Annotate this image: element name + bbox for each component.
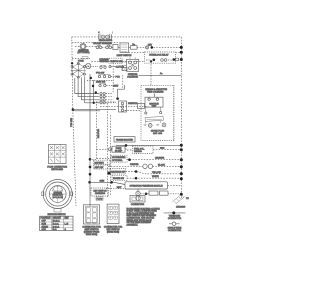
svg-text:BATTERY: BATTERY bbox=[95, 161, 105, 164]
svg-text:WHITE: WHITE bbox=[152, 176, 159, 178]
seat switch connector bbox=[82, 205, 101, 236]
node dot magneto kill bbox=[150, 60, 152, 62]
wire magneto kill vertical bbox=[150, 61, 152, 85]
svg-text:IGNITION: IGNITION bbox=[128, 103, 138, 105]
label row y162 bbox=[94, 160, 111, 164]
svg-text:PTO: PTO bbox=[116, 76, 121, 78]
ignition unit in engine bbox=[145, 94, 163, 108]
node dot bus C bbox=[180, 51, 183, 54]
node dot bus r1 bbox=[180, 144, 183, 147]
wires vertical right of switches bbox=[112, 60, 114, 92]
svg-text:RED: RED bbox=[160, 148, 165, 150]
svg-text:RUN: RUN bbox=[42, 223, 47, 225]
svg-text:KEY: KEY bbox=[148, 44, 153, 46]
single wire connector symbol bbox=[168, 222, 182, 232]
wire stub y159 bbox=[90, 158, 97, 160]
node dot interlock feed bbox=[116, 97, 119, 100]
label row y167 bbox=[94, 165, 111, 169]
key switch rotary S2 bbox=[71, 63, 86, 79]
node dot bus r2 bbox=[180, 148, 183, 151]
svg-text:BLACK: BLACK bbox=[158, 163, 165, 166]
svg-text:AMP 12V: AMP 12V bbox=[95, 166, 104, 169]
node dot bus m3 bbox=[89, 173, 92, 176]
wire row1 y145.4 bbox=[116, 144, 181, 146]
svg-text:GAP .030: GAP .030 bbox=[153, 132, 163, 135]
brake switch row y178 bbox=[112, 175, 181, 180]
node dot r1a bbox=[125, 144, 128, 147]
node dot bus end bbox=[180, 193, 183, 196]
node dot bus r6 bbox=[180, 177, 183, 180]
svg-text:REVERSE SW: REVERSE SW bbox=[111, 171, 125, 173]
interlock relay dashed box bbox=[145, 52, 176, 63]
svg-text:CLUTCH SW: CLUTCH SW bbox=[110, 61, 122, 63]
wire ground row bbox=[73, 109, 116, 110]
svg-text:GRN: GRN bbox=[100, 181, 105, 183]
wires vertical mid dashed bbox=[107, 103, 109, 198]
wire rotary to vertical bbox=[87, 80, 113, 82]
connector pins row3 bbox=[100, 99, 113, 101]
node dot r7a bbox=[110, 181, 113, 184]
svg-text:B+S+A: B+S+A bbox=[53, 225, 60, 228]
ammeter M1 bbox=[75, 43, 96, 54]
svg-text:OPERATOR PRESENCE MODULE: OPERATOR PRESENCE MODULE bbox=[130, 185, 164, 188]
wire row2 bbox=[102, 46, 181, 48]
svg-text:ORANGE: ORANGE bbox=[155, 157, 165, 160]
switch row B pto bbox=[98, 75, 120, 79]
node dot bus B bbox=[180, 46, 183, 49]
svg-text:KEY: KEY bbox=[65, 218, 70, 220]
svg-text:UNIT: UNIT bbox=[152, 106, 158, 108]
node dot w1 bbox=[90, 77, 92, 79]
key harness dashed box bbox=[91, 188, 109, 196]
wire interlock corner bbox=[118, 85, 125, 99]
fuse label box bbox=[78, 57, 88, 63]
wire line y42.7 bbox=[72, 42, 120, 44]
connector pins row2 bbox=[100, 96, 113, 98]
node dot w3 bbox=[95, 91, 97, 93]
svg-text:HEADLIGHTS: HEADLIGHTS bbox=[99, 39, 113, 42]
wire relay out bbox=[140, 193, 181, 195]
note text block bbox=[127, 208, 161, 226]
fuse F1 bbox=[106, 45, 112, 49]
svg-text:IGNITION SWITCH: IGNITION SWITCH bbox=[47, 214, 66, 216]
node dot ignition feed bbox=[151, 46, 154, 49]
wire left bus bbox=[72, 37, 76, 206]
svg-text:OPTIONAL: OPTIONAL bbox=[112, 159, 123, 162]
headlights HL1 bbox=[98, 32, 113, 42]
reverse switch row y171.5 bbox=[110, 169, 181, 175]
tick above headlights bbox=[111, 32, 113, 34]
svg-text:WIRE SIDE): WIRE SIDE) bbox=[86, 234, 98, 236]
svg-text:PLUG: PLUG bbox=[97, 198, 103, 200]
svg-text:CONNECTOR: CONNECTOR bbox=[168, 230, 182, 232]
ignition switch table bbox=[40, 214, 74, 231]
hour meter M2 bbox=[86, 63, 91, 68]
svg-text:FRAME GROUND: FRAME GROUND bbox=[116, 138, 134, 141]
svg-text:B+A: B+A bbox=[53, 228, 58, 231]
node dot relay out2 bbox=[145, 193, 148, 196]
svg-text:RED BLK: RED BLK bbox=[69, 118, 71, 128]
node dot w2 bbox=[92, 85, 94, 87]
arrow hatch ground bbox=[172, 194, 189, 208]
svg-text:CIRCUIT: CIRCUIT bbox=[53, 218, 62, 220]
svg-text:SOLENOID: SOLENOID bbox=[127, 76, 138, 78]
svg-text:YELLOW: YELLOW bbox=[152, 172, 161, 174]
node dot r5a bbox=[135, 170, 138, 173]
wire top line bbox=[72, 36, 182, 38]
switch row A clutch/brake bbox=[86, 65, 125, 68]
svg-text:A+: A+ bbox=[160, 72, 163, 75]
node dot bus m1 bbox=[89, 158, 92, 161]
svg-text:WHT: WHT bbox=[117, 187, 122, 189]
hourmeter option row y158.5 bbox=[97, 155, 182, 162]
connector pins row4 bbox=[100, 102, 116, 104]
svg-text:L+B: L+B bbox=[65, 223, 69, 225]
svg-text:CHASSIS: CHASSIS bbox=[176, 205, 186, 208]
svg-text:GROUND: GROUND bbox=[99, 61, 109, 63]
relay stacked circles bbox=[136, 189, 140, 200]
clutch label dashed box bbox=[109, 58, 122, 63]
terminal relay out box bbox=[175, 58, 178, 61]
small box pair bbox=[149, 191, 168, 195]
terminal small box bbox=[122, 68, 127, 71]
svg-text:B+A+L: B+A+L bbox=[53, 222, 60, 225]
svg-text:SEAT: SEAT bbox=[113, 84, 119, 87]
node dot bus r5 bbox=[180, 172, 183, 175]
label chassis ground bbox=[99, 58, 109, 63]
engine dashed box bbox=[141, 85, 174, 140]
node dot bus r4 bbox=[180, 165, 183, 168]
wire module feed bbox=[90, 182, 125, 184]
node dot relay a bbox=[153, 59, 156, 62]
node dot w4 bbox=[93, 102, 95, 104]
light switch S1 bbox=[117, 43, 132, 57]
terminal block bbox=[113, 45, 118, 50]
svg-text:CIRCUIT BREAKER: CIRCUIT BREAKER bbox=[93, 42, 112, 45]
svg-text:GROUND: GROUND bbox=[97, 129, 99, 139]
node dot bus relay bbox=[180, 58, 183, 61]
svg-text:START: START bbox=[42, 225, 49, 228]
svg-text:OFF: OFF bbox=[42, 221, 47, 223]
interlock wide box bbox=[125, 182, 181, 189]
node dot bus m4 bbox=[88, 181, 91, 184]
svg-text:SEAT SW: SEAT SW bbox=[96, 81, 105, 84]
svg-text:JUMPER: JUMPER bbox=[130, 164, 139, 166]
node dot left bus top bbox=[71, 62, 73, 64]
wire row y106 bbox=[100, 105, 148, 107]
wires from key switch bundle bbox=[75, 74, 99, 206]
wire to right connector bbox=[106, 188, 126, 190]
key switch connector bbox=[104, 204, 123, 233]
svg-text:WIRING: WIRING bbox=[134, 151, 142, 153]
svg-text:(WIRE SIDE): (WIRE SIDE) bbox=[107, 232, 120, 234]
svg-text:FUSE: FUSE bbox=[78, 60, 84, 62]
svg-text:B S L G A M: B S L G A M bbox=[53, 196, 64, 199]
wire module to engine bbox=[125, 110, 142, 112]
wire row y102 bbox=[96, 101, 116, 103]
small label box bbox=[96, 197, 103, 201]
engine magneto drawing bbox=[144, 107, 166, 135]
svg-text:CONNECTOR: CONNECTOR bbox=[168, 218, 182, 220]
svg-text:ACC: ACC bbox=[42, 228, 47, 231]
svg-text:TO: TO bbox=[186, 198, 189, 200]
node dot relay out bbox=[173, 58, 176, 61]
key circle bbox=[146, 46, 149, 49]
wire row y58.6 bbox=[72, 58, 90, 60]
connector pins row1 bbox=[100, 92, 113, 94]
threaded connector symbol bbox=[164, 211, 186, 220]
node dot left bus bbox=[72, 108, 75, 111]
terminal B+ bbox=[131, 44, 138, 49]
svg-text:M+G+A: M+G+A bbox=[53, 220, 61, 223]
node dot bus m2 bbox=[89, 166, 92, 169]
circuit breaker CB1 bbox=[96, 45, 102, 49]
interlock module U1 bbox=[119, 101, 127, 112]
svg-text:CONNECTOR: CONNECTOR bbox=[131, 204, 145, 206]
svg-text:KEYBOARD: KEYBOARD bbox=[51, 168, 63, 171]
switch row C seat bbox=[99, 84, 119, 88]
plug connector grid bbox=[47, 145, 67, 172]
relay block above note bbox=[130, 196, 145, 206]
wire right bus bbox=[180, 37, 182, 198]
svg-text:HARNESS: HARNESS bbox=[95, 192, 106, 195]
svg-text:PTO SW: PTO SW bbox=[96, 73, 104, 75]
svg-text:20 AMP: 20 AMP bbox=[115, 150, 123, 153]
svg-text:ASSEMBLY.: ASSEMBLY. bbox=[127, 223, 139, 226]
svg-text:(OPTIONAL): (OPTIONAL) bbox=[78, 51, 90, 54]
node dot bus r3 bbox=[180, 158, 183, 161]
solenoid assembly bbox=[122, 57, 139, 78]
svg-text:TWIN CYLINDER: TWIN CYLINDER bbox=[147, 92, 164, 94]
ignition switch face bbox=[42, 180, 73, 213]
fuse holder row y149 bbox=[97, 145, 182, 153]
engine left port box bbox=[138, 104, 145, 109]
svg-text:INTERLOCK RELAY: INTERLOCK RELAY bbox=[149, 53, 169, 56]
svg-text:LIGHT SWITCH: LIGHT SWITCH bbox=[117, 55, 132, 57]
frame ground box bbox=[114, 137, 135, 142]
black square terminal bbox=[108, 172, 111, 175]
node dot r6a bbox=[135, 177, 138, 180]
connector pair row y166.3 bbox=[108, 163, 181, 168]
wire A+ to bus bbox=[139, 72, 182, 75]
svg-text:POSITION: POSITION bbox=[41, 218, 51, 220]
wire row y52.3 bbox=[129, 51, 182, 53]
node dot r3a bbox=[128, 158, 131, 161]
wire row y61.4 bbox=[92, 60, 145, 62]
svg-text:BRAKE SW: BRAKE SW bbox=[113, 177, 124, 180]
